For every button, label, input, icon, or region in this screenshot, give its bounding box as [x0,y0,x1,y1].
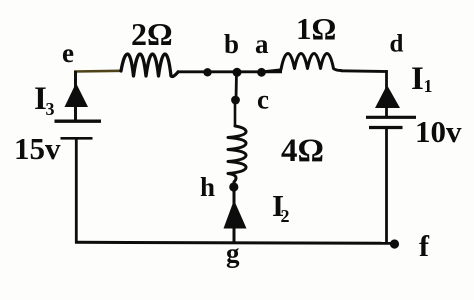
wire 1ohm to node d corner [341,69,386,72]
wire c to 4ohm [234,100,237,127]
svg-text:2: 2 [281,206,290,226]
svg-text:10v: 10v [415,114,462,149]
svg-text:15v: 15v [14,131,61,166]
svg-text:a: a [255,29,269,59]
wire battery 15v down to bottom-left corner [75,139,78,244]
svg-text:h: h [200,172,215,202]
current arrow I3 [65,83,89,107]
wire e to 2-ohm resistor (olive tinted) [74,70,121,73]
current arrow I1 [375,85,400,108]
node h dot [229,182,238,191]
resistor R 1ohm [281,54,341,71]
svg-text:4Ω: 4Ω [281,133,324,169]
wire a to 1-ohm resistor [261,70,281,72]
wire e-corner vertical [74,71,77,85]
current arrow I2 [224,200,247,229]
svg-text:2Ω: 2Ω [131,16,173,52]
battery 10v bottom plate [369,126,403,129]
wire battery 10v down to node f [385,128,388,244]
junction dot left of b [203,68,211,76]
battery 15v bottom plate [61,137,93,140]
svg-text:I: I [411,61,424,97]
node b dot [233,68,242,77]
wire b to c [235,72,238,100]
battery 15v top plate [55,119,102,122]
svg-text:1: 1 [424,76,433,96]
svg-text:b: b [224,29,239,59]
node a dot [257,68,266,77]
bottom wire [75,242,394,243]
svg-text:3: 3 [46,99,55,119]
svg-text:d: d [390,31,404,58]
node f dot [390,239,399,248]
battery 10v top plate [366,116,416,119]
wire h to bottom (stem of I2) [233,190,236,243]
svg-text:f: f [419,230,430,263]
wire d corner down to battery 10v [385,70,388,117]
resistor R 4ohm (vertical) [228,126,246,182]
svg-text:e: e [62,38,74,68]
svg-text:1Ω: 1Ω [296,11,336,46]
svg-text:c: c [257,85,269,115]
node c dot [231,96,240,105]
wire e corner down to battery 15v [74,71,77,120]
wire 2ohm to node a [177,70,282,73]
resistor R 2ohm [121,54,178,77]
